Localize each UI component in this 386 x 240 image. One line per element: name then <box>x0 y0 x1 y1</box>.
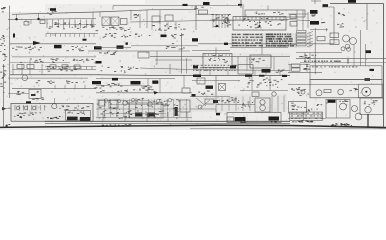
resistor R12 <box>182 88 190 93</box>
wire <box>196 14 231 16</box>
block outline audio <box>29 89 41 98</box>
wire <box>96 92 192 94</box>
wire <box>311 0 321 2</box>
relay K1 <box>199 10 208 14</box>
transistor Q12 <box>260 105 266 111</box>
parts list row <box>266 43 291 45</box>
wire <box>96 108 188 110</box>
wire <box>277 96 279 112</box>
block outline bottom-right A <box>326 100 350 119</box>
wire <box>96 78 175 80</box>
label values <box>152 24 186 31</box>
label <box>135 113 143 117</box>
wire <box>10 43 96 45</box>
wire <box>96 85 150 87</box>
wire <box>30 19 32 24</box>
IC U4 pins <box>205 54 230 57</box>
parts list row <box>266 40 293 42</box>
border bottom 2 <box>190 128 386 130</box>
resistor R3 <box>197 78 205 84</box>
label text <box>17 112 42 116</box>
relay K4 <box>330 33 339 38</box>
wire <box>38 13 40 19</box>
wire <box>99 12 101 17</box>
resistor R13 <box>324 90 331 93</box>
label text <box>209 55 228 63</box>
wire <box>21 64 23 75</box>
label left edge <box>1 7 6 12</box>
resistor R6 <box>292 68 301 71</box>
resistor R2 <box>27 65 34 69</box>
transformer T1 winding <box>345 44 350 49</box>
label <box>80 117 90 121</box>
wire <box>216 103 255 105</box>
label text <box>276 69 285 72</box>
resistor R15 <box>62 65 68 69</box>
wire <box>2 108 11 110</box>
wire <box>296 58 386 60</box>
wash mid center <box>150 53 290 76</box>
wire <box>192 80 240 82</box>
speaker SP2 <box>365 107 371 113</box>
wire <box>306 64 308 72</box>
label text <box>291 87 300 90</box>
dense labels <box>99 110 179 119</box>
wire <box>215 54 217 57</box>
transistor Q14 <box>352 106 358 112</box>
label <box>262 69 271 73</box>
border bottom <box>0 125 386 127</box>
wire <box>156 51 158 64</box>
resistor R7 <box>99 100 105 106</box>
stage verticals <box>98 99 186 117</box>
capacitor C20 <box>290 15 296 19</box>
label text <box>100 89 154 92</box>
stage verticals 2 <box>222 97 250 111</box>
label text <box>300 55 317 59</box>
wire <box>265 71 267 76</box>
label text <box>338 12 345 16</box>
wire <box>360 30 362 66</box>
wire <box>314 28 316 74</box>
title text dark <box>331 123 352 126</box>
wire <box>314 0 316 4</box>
wire <box>366 4 368 31</box>
label text <box>311 14 316 16</box>
wire <box>146 10 148 28</box>
resistor R10 <box>152 16 160 22</box>
wire <box>310 29 328 31</box>
wire <box>54 85 56 89</box>
crystal X1 <box>121 19 128 25</box>
wire <box>271 96 273 112</box>
wire <box>261 44 263 55</box>
label on line <box>245 75 252 77</box>
label <box>54 45 62 49</box>
label <box>365 78 371 81</box>
IC U3 <box>233 17 286 31</box>
wash bottom middle <box>96 98 192 121</box>
transistor Q20 <box>224 19 228 23</box>
wire <box>92 12 94 26</box>
labels <box>171 34 184 38</box>
label <box>50 8 56 11</box>
resistor R1 <box>17 65 24 69</box>
table row <box>291 115 322 116</box>
label text <box>247 78 283 88</box>
wire <box>29 60 31 75</box>
arrow left <box>2 107 7 110</box>
wire <box>60 24 96 26</box>
border right <box>383 4 385 128</box>
wire <box>309 53 311 63</box>
wire <box>110 104 170 106</box>
transformer T1 winding <box>343 35 350 42</box>
wire <box>98 100 150 102</box>
label <box>269 117 280 121</box>
IC U11 <box>289 102 307 114</box>
wire <box>254 71 256 76</box>
wire <box>296 10 298 30</box>
wire <box>195 6 197 31</box>
wire <box>12 64 14 75</box>
label bar <box>175 107 178 116</box>
transformer T1 winding <box>350 38 357 45</box>
shield box label row <box>312 66 357 67</box>
parts list row <box>266 45 294 47</box>
wire <box>230 47 288 49</box>
label <box>67 117 78 121</box>
label scribble <box>206 86 214 89</box>
resistor network RN1 <box>297 31 307 46</box>
label text <box>99 51 118 55</box>
label <box>26 101 31 103</box>
label text <box>67 112 85 115</box>
label on line <box>259 75 265 77</box>
wire <box>288 117 326 119</box>
wire <box>124 112 126 121</box>
label row dark <box>304 61 341 62</box>
parts list row <box>193 65 237 66</box>
transistor Q9 <box>148 102 152 106</box>
wire <box>326 28 328 32</box>
wire diagonal <box>196 98 206 106</box>
capacitor C10 <box>24 22 29 26</box>
relay K2 <box>138 52 149 58</box>
IC U2 <box>111 17 119 26</box>
transistor Q5 <box>316 90 322 96</box>
wire <box>279 71 281 76</box>
parts list row <box>232 37 263 38</box>
transistor Q11 <box>260 100 265 105</box>
wire <box>41 64 43 75</box>
border left upper <box>9 6 11 99</box>
component leads <box>48 67 92 70</box>
IC U8 <box>109 100 118 108</box>
label <box>366 50 372 53</box>
block outline bottom-right B <box>360 98 383 115</box>
wire <box>183 75 185 88</box>
wire <box>25 19 27 22</box>
label text <box>16 91 24 95</box>
transistor Q3 <box>272 92 276 96</box>
wire <box>288 13 308 15</box>
label <box>370 69 375 71</box>
wire <box>54 98 56 104</box>
wire <box>251 76 253 91</box>
label <box>161 35 167 38</box>
speaker SP1 box <box>359 84 384 97</box>
transistor Q17 <box>117 99 120 102</box>
label <box>203 2 210 5</box>
transistor Q18 <box>131 98 134 101</box>
wire <box>240 0 242 8</box>
connector J1 pins <box>46 34 94 38</box>
label <box>117 45 124 48</box>
transistor Q6 <box>338 89 344 95</box>
label text <box>291 103 306 110</box>
wire <box>283 96 285 112</box>
wire <box>45 66 96 68</box>
wire main mid bus <box>10 74 290 77</box>
wire <box>288 84 358 86</box>
IC U1 <box>102 17 110 26</box>
wire <box>130 10 132 20</box>
parts list row <box>232 39 263 40</box>
label text <box>337 23 344 27</box>
labels <box>306 104 322 112</box>
parts list row <box>232 34 262 35</box>
label text <box>218 97 240 104</box>
capacitor bank C1-C9 <box>47 20 92 29</box>
label text <box>36 80 85 84</box>
IC U5 <box>250 55 271 68</box>
wire <box>12 56 96 58</box>
wire <box>64 85 66 89</box>
wire <box>290 114 323 116</box>
scan noise <box>7 4 382 127</box>
wire <box>186 58 188 74</box>
wire <box>288 19 310 22</box>
junction <box>15 18 17 20</box>
junction <box>258 25 260 27</box>
wire <box>167 112 169 121</box>
label <box>5 124 10 126</box>
transistor Q7 <box>52 104 57 109</box>
block outline main-right <box>310 80 382 98</box>
relay K5 <box>330 40 339 45</box>
wire main top bus <box>12 9 196 14</box>
wire <box>102 112 104 121</box>
wire top rail <box>113 5 241 7</box>
lamp DS1 <box>341 47 345 51</box>
label <box>193 66 198 69</box>
edge labels lower <box>0 66 6 93</box>
label dot <box>224 43 228 45</box>
wire <box>333 7 335 44</box>
wire <box>288 44 296 46</box>
lamp DS2 <box>347 47 351 51</box>
transistor Q1 <box>22 75 28 81</box>
transistor Q16 <box>104 99 107 102</box>
resistor R5 <box>292 64 301 67</box>
label <box>240 122 246 123</box>
label text <box>198 91 213 95</box>
relay K6 <box>227 117 234 121</box>
parts list row <box>193 67 236 68</box>
label text <box>141 86 152 89</box>
IC U3 pins <box>236 17 284 20</box>
label <box>328 100 336 103</box>
wire <box>190 96 230 98</box>
label values <box>49 22 95 29</box>
wire <box>302 10 304 30</box>
label dark <box>47 116 61 119</box>
diode D1 <box>16 106 20 110</box>
parts list row <box>266 34 291 36</box>
wire <box>139 14 141 28</box>
label text <box>94 85 104 88</box>
filter cluster pins <box>213 14 228 28</box>
label <box>310 21 319 25</box>
label text <box>101 66 139 73</box>
IC U4 <box>203 54 232 68</box>
parts list row <box>232 45 263 46</box>
label <box>348 0 356 3</box>
label <box>112 78 118 81</box>
wire <box>288 71 322 73</box>
wire <box>192 50 230 52</box>
wire <box>267 6 269 11</box>
wire <box>353 44 355 66</box>
label <box>152 81 158 84</box>
diode row <box>15 105 44 111</box>
wire <box>300 62 386 64</box>
wire <box>10 62 70 64</box>
parts list row <box>266 36 291 38</box>
label <box>96 61 102 64</box>
wire <box>240 90 288 92</box>
wire <box>150 56 290 58</box>
tuner label <box>256 12 284 15</box>
wire <box>210 19 288 21</box>
label dot <box>126 42 128 44</box>
edge labels <box>0 35 7 61</box>
wire diagonal <box>200 100 210 108</box>
mixer X2 <box>219 84 226 91</box>
wire <box>8 77 88 79</box>
label row <box>20 58 93 63</box>
IC U10 <box>255 98 270 112</box>
IC U9 <box>180 100 190 112</box>
wire <box>12 88 96 90</box>
hatch diagonals <box>307 32 313 47</box>
wire <box>336 100 338 119</box>
label on line <box>282 75 287 77</box>
label dark <box>14 115 22 118</box>
label text <box>12 46 42 51</box>
wire <box>12 69 96 71</box>
diode D3 <box>32 106 36 110</box>
resistor R16 <box>74 65 80 69</box>
wire <box>159 79 161 93</box>
wire <box>104 113 166 115</box>
wire <box>288 63 310 65</box>
label diagonal blob <box>154 91 159 95</box>
label <box>235 117 246 121</box>
connector labels <box>103 33 151 38</box>
wire <box>215 76 217 96</box>
wire <box>159 10 161 25</box>
transistor Q13 <box>340 103 347 110</box>
wire <box>365 44 367 66</box>
transistor Q4 <box>301 90 305 94</box>
diode D2 <box>24 106 28 110</box>
label text <box>32 97 44 99</box>
parts list row <box>193 70 236 71</box>
mixer cross <box>219 84 226 91</box>
label text <box>297 89 309 96</box>
label text <box>194 7 204 10</box>
speaker SP1 <box>362 87 371 96</box>
wire <box>74 85 76 89</box>
tuner box <box>245 10 305 17</box>
wire <box>190 108 216 110</box>
wire <box>259 20 261 26</box>
transistor Q8 <box>123 101 127 105</box>
junction <box>216 25 218 27</box>
wire <box>273 57 275 71</box>
transistor Q15 <box>355 113 362 120</box>
label text <box>166 43 185 49</box>
label text <box>303 64 310 70</box>
wire <box>84 85 86 89</box>
transistor Q10 <box>198 105 202 109</box>
module box <box>129 103 163 118</box>
parts list row <box>232 42 261 43</box>
label <box>192 38 198 41</box>
transistor Q19 <box>156 99 159 102</box>
resistor R8 <box>205 99 214 104</box>
label text <box>47 11 56 15</box>
title text <box>292 120 313 122</box>
label on rail <box>183 4 188 6</box>
wire mid bus 2 <box>140 68 290 71</box>
wire <box>88 50 190 52</box>
label tick <box>13 34 15 38</box>
wire <box>303 112 305 120</box>
title block table <box>290 112 323 120</box>
label <box>216 113 220 116</box>
label <box>213 100 218 103</box>
wire <box>131 45 198 47</box>
wire <box>155 59 192 61</box>
label text <box>364 100 378 105</box>
block outline bottom-left <box>11 103 93 121</box>
stage verticals 3 <box>152 22 176 30</box>
wire <box>147 79 149 93</box>
label <box>271 121 277 122</box>
border top-right <box>330 3 384 5</box>
shield box upper <box>310 66 382 80</box>
wire <box>290 116 323 118</box>
wire <box>16 14 18 19</box>
wire <box>169 64 171 74</box>
IC U1 cross <box>102 17 110 26</box>
wire <box>146 112 148 121</box>
label text <box>321 22 325 23</box>
wire <box>242 4 244 22</box>
